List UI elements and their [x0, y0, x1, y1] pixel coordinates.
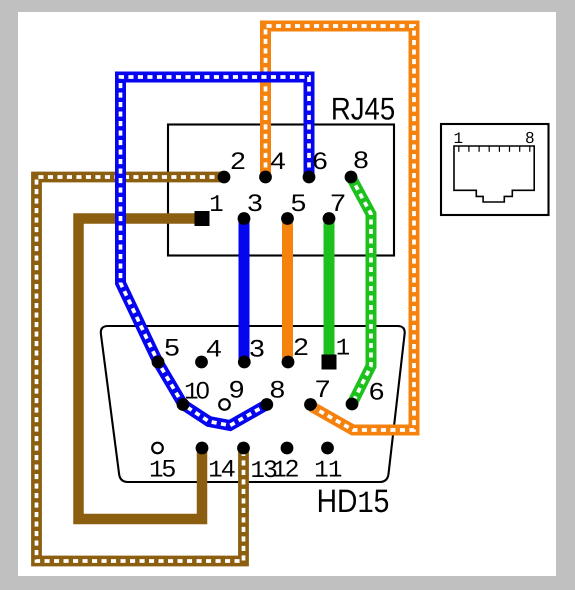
svg-text:1: 1 [209, 192, 223, 219]
svg-text:HD15: HD15 [317, 483, 390, 522]
svg-text:RJ45: RJ45 [331, 91, 395, 127]
svg-text:5: 5 [291, 190, 307, 217]
svg-text:8: 8 [353, 147, 369, 174]
svg-text:7: 7 [315, 376, 331, 403]
wire brown solid: RJ45 pin1 to HD15 pin14 [79, 219, 203, 520]
svg-text:6: 6 [369, 379, 385, 406]
RJ45 jack icon socket outline [454, 146, 534, 202]
svg-text:4: 4 [221, 455, 235, 482]
HD15 pin6 dot [346, 398, 359, 411]
HD15 pin12 dot [281, 442, 294, 455]
svg-text:9: 9 [229, 377, 245, 404]
wire orange/white dashed: RJ45 pin4 to HD15 pin7 [266, 26, 415, 430]
wire blue/white dashed: RJ45 pin6 to HD15 pins 5,10,8 [121, 77, 310, 426]
RJ45 pin8 dot [345, 171, 358, 184]
svg-text:1: 1 [453, 130, 463, 148]
RJ45 pin1 square [195, 211, 210, 226]
wire green solid: RJ45 pin7 to HD15 pin1 [324, 219, 335, 363]
svg-text:8: 8 [525, 130, 534, 147]
RJ45 jack icon frame [441, 124, 549, 215]
svg-text:1: 1 [314, 457, 328, 484]
RJ45 connector outline [168, 125, 394, 256]
HD15 pin1 square [322, 355, 337, 370]
HD15 pin14 dot [196, 442, 209, 455]
svg-text:1: 1 [336, 335, 350, 362]
svg-text:7: 7 [330, 190, 346, 217]
svg-text:5: 5 [164, 334, 180, 361]
RJ45 pin2 dot [218, 171, 231, 184]
wire brown/white dashed: RJ45 pin2 to HD15 pin13 [37, 177, 244, 561]
svg-text:8: 8 [270, 377, 286, 404]
svg-text:3: 3 [247, 190, 263, 217]
RJ45 pin4 dot [259, 171, 272, 184]
svg-text:5: 5 [162, 455, 176, 482]
RJ45 pin3 dot [238, 212, 251, 225]
wire orange solid: RJ45 pin5 to HD15 pin2 [282, 219, 293, 363]
HD15 pin7 dot [304, 398, 317, 411]
HD15 pin15 open circle [152, 443, 163, 454]
svg-text:1: 1 [328, 457, 342, 484]
svg-text:3: 3 [249, 335, 265, 362]
RJ45 pin7 dot [323, 212, 336, 225]
HD15 pin3 dot [238, 356, 251, 369]
svg-text:0: 0 [196, 377, 210, 404]
RJ45 jack icon pin ticks [459, 147, 530, 152]
HD15 pin5 dot [152, 356, 165, 369]
svg-text:4: 4 [206, 335, 222, 362]
RJ45 pin numbers top row [209, 147, 368, 219]
HD15 pin10 dot [177, 398, 190, 411]
HD15 pin8 dot [260, 398, 273, 411]
HD15 pin4 dot [195, 356, 208, 369]
HD15 pin2 dot [282, 356, 295, 369]
svg-text:2: 2 [230, 148, 246, 175]
HD15 pin11 dot [321, 442, 334, 455]
HD15 pin13 dot [237, 442, 250, 455]
HD15 pin9 open circle [219, 399, 230, 410]
svg-text:6: 6 [312, 148, 328, 175]
RJ45 pin5 dot [281, 212, 294, 225]
wire blue solid: RJ45 pin3 to HD15 pin3 [239, 219, 250, 363]
HD15 connector outline [101, 326, 405, 482]
RJ45 pin6 dot [303, 171, 316, 184]
HD15 pin numbers [149, 334, 384, 485]
wire green/white dashed: RJ45 pin8 to HD15 pin6 [351, 177, 371, 404]
svg-text:2: 2 [285, 455, 299, 482]
svg-text:4: 4 [270, 148, 286, 175]
svg-text:2: 2 [293, 334, 309, 361]
